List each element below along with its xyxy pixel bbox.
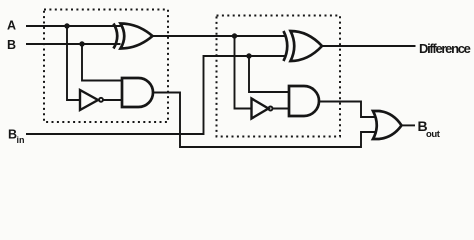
svg-text:in: in bbox=[17, 135, 25, 145]
svg-text:out: out bbox=[426, 129, 441, 140]
svg-text:A: A bbox=[7, 19, 16, 33]
svg-text:B: B bbox=[7, 38, 16, 52]
svg-text:Difference: Difference bbox=[419, 41, 471, 56]
